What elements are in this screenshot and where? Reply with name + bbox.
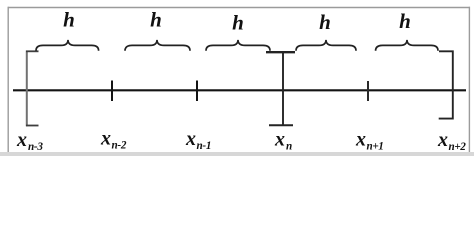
svg-text:h: h — [63, 8, 75, 32]
svg-text:x: x — [185, 128, 196, 150]
svg-text:n-1: n-1 — [197, 140, 212, 152]
svg-text:n: n — [286, 141, 292, 153]
svg-text:n-2: n-2 — [112, 140, 127, 152]
svg-text:x: x — [274, 129, 285, 151]
svg-text:n+1: n+1 — [367, 141, 384, 153]
svg-text:x: x — [16, 129, 27, 151]
svg-text:n-3: n-3 — [28, 141, 43, 153]
svg-text:x: x — [355, 129, 366, 151]
svg-text:h: h — [399, 9, 411, 33]
svg-text:x: x — [100, 128, 111, 150]
svg-text:h: h — [150, 8, 162, 32]
svg-text:n+2: n+2 — [449, 141, 467, 153]
svg-text:h: h — [319, 10, 331, 34]
svg-text:x: x — [437, 129, 448, 151]
svg-text:h: h — [232, 11, 244, 35]
